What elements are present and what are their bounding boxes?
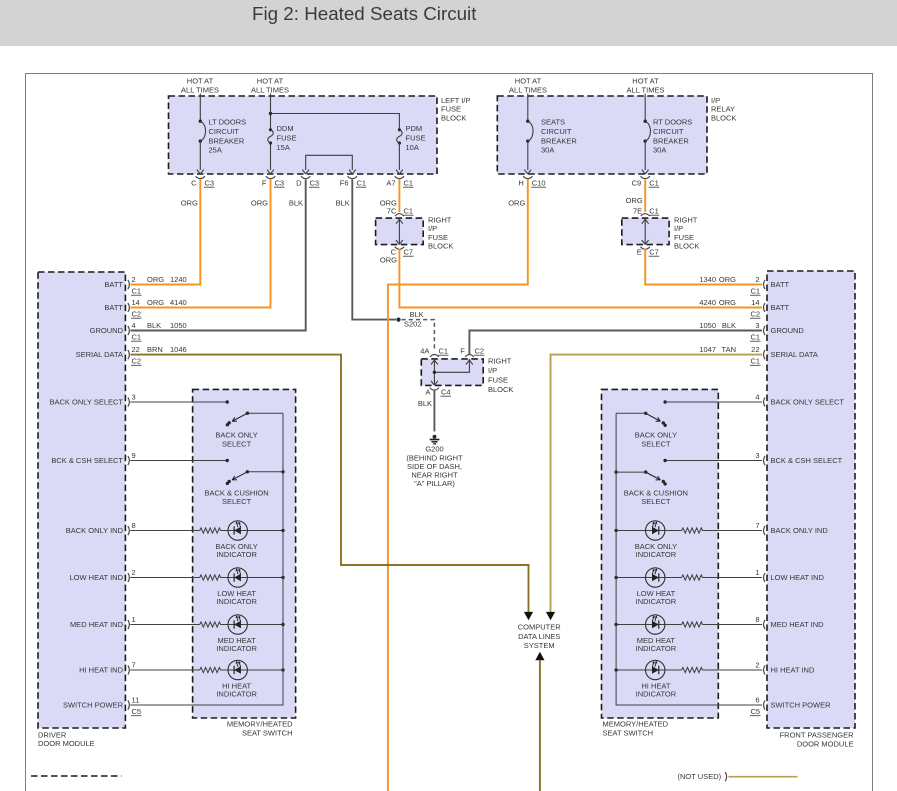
svg-text:ALL TIMES: ALL TIMES [181, 86, 219, 95]
svg-text:LEFT I/P: LEFT I/P [441, 96, 470, 105]
wire ORG C9 to right I/P fuse block [644, 180, 646, 213]
wire ORG circuit 4140 to driver BATT [131, 180, 271, 308]
svg-text:INDICATOR: INDICATOR [216, 690, 257, 699]
wire TAN circuit 1047 serial data [551, 355, 763, 613]
pin 7 BACK ONLY IND (passenger module) [755, 521, 828, 535]
svg-text:3: 3 [755, 321, 759, 330]
connector H C10 [523, 176, 532, 179]
svg-text:7: 7 [132, 660, 136, 669]
svg-text:FUSE: FUSE [277, 133, 297, 142]
svg-text:11: 11 [132, 695, 140, 704]
wire ORG seats feed down to seat elements [388, 180, 528, 791]
pin 8 BACK ONLY IND (driver module) [66, 521, 136, 535]
wire switch to rail [247, 471, 283, 473]
svg-text:BCK & CSH SELECT: BCK & CSH SELECT [771, 456, 843, 465]
indicator LOW HEAT (passenger) [614, 568, 762, 606]
svg-text:3: 3 [132, 392, 136, 401]
wire through fuse block [398, 218, 400, 245]
switch power rail (driver) [130, 413, 283, 705]
svg-text:F6: F6 [340, 179, 349, 188]
svg-text:C3: C3 [205, 179, 215, 188]
svg-text:BLK: BLK [289, 199, 303, 208]
indicator MED HEAT (driver) [130, 615, 284, 653]
svg-text:I/P: I/P [711, 96, 720, 105]
memory/heated seat switch box (passenger) [602, 389, 719, 718]
wire through fuse block [644, 218, 646, 245]
pin 1 LOW HEAT IND (passenger module) [755, 568, 824, 582]
svg-text:RIGHT: RIGHT [674, 216, 698, 225]
svg-text:SWITCH POWER: SWITCH POWER [771, 701, 832, 710]
junction on DDM feed [269, 112, 272, 115]
svg-text:2: 2 [132, 568, 136, 577]
svg-text:LOW HEAT IND: LOW HEAT IND [771, 573, 825, 582]
svg-text:BACK ONLY IND: BACK ONLY IND [66, 526, 124, 535]
svg-text:INDICATOR: INDICATOR [216, 644, 257, 653]
svg-text:BLOCK: BLOCK [711, 113, 736, 122]
svg-text:MEMORY/HEATED: MEMORY/HEATED [227, 719, 293, 728]
svg-text:SEAT SWITCH: SEAT SWITCH [603, 728, 654, 737]
svg-text:1: 1 [132, 615, 136, 624]
svg-text:C5: C5 [132, 707, 142, 716]
wire BRN circuit 1046 serial data [131, 355, 529, 613]
svg-text:30A: 30A [653, 146, 666, 155]
svg-text:1340: 1340 [699, 275, 716, 284]
svg-text:BACK ONLY: BACK ONLY [635, 431, 677, 440]
svg-text:8: 8 [132, 521, 136, 530]
indicator LOW HEAT (driver) [130, 568, 284, 606]
svg-text:D: D [296, 179, 302, 188]
svg-text:INDICATOR: INDICATOR [636, 550, 677, 559]
wire ORG to passenger BATT pin 14 [399, 249, 762, 308]
pin 7 HI HEAT IND (driver module) [79, 660, 136, 674]
svg-text:BLK: BLK [336, 199, 350, 208]
svg-text:1240: 1240 [170, 275, 187, 284]
svg-text:I/P: I/P [488, 366, 497, 375]
pin 2 HI HEAT IND (passenger module) [755, 660, 815, 674]
svg-text:FUSE: FUSE [674, 233, 694, 242]
svg-text:SELECT: SELECT [641, 497, 671, 506]
svg-text:SEATS: SEATS [541, 118, 565, 127]
svg-text:MED HEAT IND: MED HEAT IND [70, 620, 124, 629]
svg-text:RIGHT: RIGHT [488, 357, 512, 366]
connector (not used) pin [725, 772, 727, 781]
svg-text:1047: 1047 [699, 345, 716, 354]
svg-text:2: 2 [755, 275, 759, 284]
svg-text:2: 2 [755, 660, 759, 669]
svg-text:ORG: ORG [251, 199, 268, 208]
svg-text:1050: 1050 [170, 321, 187, 330]
svg-text:C7: C7 [649, 248, 659, 257]
front passenger door module box [767, 271, 855, 728]
svg-text:C1: C1 [649, 179, 659, 188]
svg-text:4: 4 [132, 321, 136, 330]
svg-text:2: 2 [132, 275, 136, 284]
svg-text:INDICATOR: INDICATOR [216, 597, 257, 606]
connector A7 C1 [395, 176, 404, 179]
pin 9 BCK & CSH SELECT (driver module) [51, 451, 135, 465]
svg-text:10A: 10A [406, 143, 419, 152]
svg-text:DOOR MODULE: DOOR MODULE [38, 739, 95, 748]
wire bracket D to F6 [306, 155, 353, 170]
left I/P fuse block box [169, 96, 438, 174]
ground G200 [433, 435, 437, 439]
svg-text:30A: 30A [541, 146, 554, 155]
svg-text:G200: G200 [425, 445, 443, 454]
svg-text:BREAKER: BREAKER [541, 136, 577, 145]
svg-text:F: F [460, 347, 465, 356]
wire BLK to G200 [433, 390, 435, 432]
connector C9 C1 [641, 176, 650, 179]
connector F C3 [266, 176, 275, 179]
pin 2 LOW HEAT IND (driver module) [70, 568, 136, 582]
connector D C3 [301, 176, 310, 179]
svg-text:9: 9 [132, 451, 136, 460]
svg-text:C1: C1 [132, 287, 142, 296]
wire ORG A7 to right I/P fuse block [398, 180, 400, 213]
svg-text:CIRCUIT: CIRCUIT [541, 127, 572, 136]
svg-text:C1: C1 [132, 333, 142, 342]
svg-text:C1: C1 [404, 179, 414, 188]
svg-text:SEAT SWITCH: SEAT SWITCH [242, 728, 293, 737]
switch BACK ONLY SELECT (passenger) [644, 412, 667, 427]
svg-text:7: 7 [755, 521, 759, 530]
wire BLK F6 to splice S202 [352, 180, 396, 320]
right I/P fuse block box (left) [376, 218, 424, 245]
svg-text:4140: 4140 [170, 298, 187, 307]
wire pin 9 to back & cushion select switch [130, 460, 227, 462]
svg-text:BLK: BLK [722, 321, 736, 330]
svg-text:"A" PILLAR): "A" PILLAR) [414, 479, 455, 488]
svg-text:MEMORY/HEATED: MEMORY/HEATED [603, 719, 669, 728]
right I/P fuse block box (right) [622, 218, 669, 245]
svg-text:ORG: ORG [719, 298, 736, 307]
svg-text:C4: C4 [441, 388, 451, 397]
svg-text:C3: C3 [310, 179, 320, 188]
svg-text:C2: C2 [132, 357, 142, 366]
svg-text:ALL TIMES: ALL TIMES [509, 86, 547, 95]
svg-text:BACK & CUSHION: BACK & CUSHION [624, 488, 688, 497]
fuse DDM 15A [270, 94, 272, 130]
pin 2 BATT (passenger module) [699, 275, 789, 296]
svg-text:HI HEAT IND: HI HEAT IND [771, 666, 815, 675]
circuit breaker SEATS 30A [527, 94, 529, 122]
memory/heated seat switch box (driver) [193, 389, 296, 718]
indicator MED HEAT (passenger) [614, 615, 762, 653]
svg-text:SYSTEM: SYSTEM [524, 641, 555, 650]
pin 4 BACK ONLY SELECT (passenger module) [755, 392, 844, 406]
pin 22 SERIAL DATA (driver module) [76, 345, 187, 366]
svg-text:C1: C1 [751, 357, 761, 366]
junction rail [281, 470, 284, 473]
connector E C7 [641, 247, 650, 250]
svg-text:FUSE: FUSE [441, 105, 461, 114]
svg-text:RELAY: RELAY [711, 105, 735, 114]
svg-text:BACK ONLY IND: BACK ONLY IND [771, 526, 829, 535]
svg-text:BLOCK: BLOCK [488, 385, 513, 394]
svg-text:RIGHT: RIGHT [428, 216, 452, 225]
svg-text:C1: C1 [751, 287, 761, 296]
svg-text:BATT: BATT [104, 303, 123, 312]
svg-text:DDM: DDM [277, 124, 294, 133]
wire ORG circuit 1240 to driver BATT [131, 180, 201, 285]
svg-text:PDM: PDM [406, 124, 423, 133]
svg-text:25A: 25A [209, 146, 222, 155]
svg-text:GROUND: GROUND [771, 326, 805, 335]
junction rail [614, 470, 617, 473]
switch BACK & CUSHION SELECT (passenger) [644, 470, 667, 485]
circuit breaker RT DOORS 30A [644, 94, 646, 122]
svg-text:SELECT: SELECT [641, 439, 671, 448]
indicator HI HEAT (passenger) [614, 660, 762, 698]
svg-text:SWITCH POWER: SWITCH POWER [63, 701, 124, 710]
pin 11 SWITCH POWER (driver module) [63, 695, 142, 716]
switch BACK & CUSHION SELECT (driver) [226, 470, 249, 485]
svg-text:TAN: TAN [722, 345, 736, 354]
svg-text:ALL TIMES: ALL TIMES [627, 86, 665, 95]
svg-text:H: H [518, 179, 523, 188]
svg-text:DOOR MODULE: DOOR MODULE [797, 740, 854, 749]
wire pin 3 to back only select switch [130, 401, 227, 403]
connector C C3 [196, 176, 205, 179]
wire switch to rail [616, 471, 646, 473]
right I/P fuse block box (middle) [421, 359, 483, 386]
svg-text:SELECT: SELECT [222, 497, 252, 506]
indicator BACK ONLY (passenger) [614, 521, 762, 559]
svg-text:22: 22 [132, 345, 140, 354]
svg-text:ORG: ORG [147, 298, 164, 307]
svg-text:BATT: BATT [771, 280, 790, 289]
svg-text:C3: C3 [275, 179, 285, 188]
circuit breaker LT DOORS 25A [199, 94, 201, 122]
svg-text:14: 14 [751, 298, 759, 307]
svg-text:BLK: BLK [147, 321, 161, 330]
svg-text:FUSE: FUSE [488, 376, 508, 385]
svg-text:INDICATOR: INDICATOR [636, 597, 677, 606]
svg-text:HOT AT: HOT AT [515, 77, 542, 86]
svg-text:LT DOORS: LT DOORS [209, 118, 247, 127]
svg-text:C2: C2 [751, 310, 761, 319]
svg-text:BLOCK: BLOCK [441, 113, 466, 122]
svg-text:BACK ONLY SELECT: BACK ONLY SELECT [771, 398, 845, 407]
wire BLK dashed S202 to 4A [402, 320, 435, 352]
svg-text:COMPUTER: COMPUTER [518, 623, 562, 632]
pin 22 SERIAL DATA (passenger module) [699, 345, 818, 366]
indicator BACK ONLY (driver) [130, 521, 284, 559]
svg-text:F: F [262, 179, 267, 188]
svg-text:1046: 1046 [170, 345, 187, 354]
svg-text:SELECT: SELECT [222, 439, 252, 448]
svg-text:HOT AT: HOT AT [187, 77, 214, 86]
driver door module box [38, 272, 125, 728]
svg-text:C10: C10 [532, 179, 546, 188]
svg-text:ORG: ORG [380, 256, 397, 265]
svg-text:ORG: ORG [626, 196, 643, 205]
svg-text:7C: 7C [387, 207, 397, 216]
svg-text:I/P: I/P [428, 224, 437, 233]
svg-text:GROUND: GROUND [90, 326, 124, 335]
svg-text:C7: C7 [404, 248, 414, 257]
wire pin 4 to back only select switch [665, 401, 762, 403]
svg-text:BREAKER: BREAKER [209, 136, 245, 145]
svg-text:ORG: ORG [508, 199, 525, 208]
svg-text:A7: A7 [386, 179, 395, 188]
pin 4 GROUND (driver module) [90, 321, 187, 342]
svg-text:FUSE: FUSE [428, 233, 448, 242]
fuse PDM 10A [398, 128, 401, 131]
svg-text:BACK & CUSHION: BACK & CUSHION [205, 488, 269, 497]
svg-text:INDICATOR: INDICATOR [636, 644, 677, 653]
svg-text:ORG: ORG [147, 275, 164, 284]
svg-text:FUSE: FUSE [406, 133, 426, 142]
svg-text:S202: S202 [404, 320, 422, 329]
svg-text:C1: C1 [404, 207, 414, 216]
next module box (cut off) [31, 775, 122, 777]
wire switch to rail [616, 412, 646, 414]
svg-text:C2: C2 [475, 347, 485, 356]
svg-text:C1: C1 [649, 207, 659, 216]
pin 6 SWITCH POWER (passenger module) [750, 695, 831, 716]
svg-text:ALL TIMES: ALL TIMES [251, 86, 289, 95]
wire BLK circuit 1050 to driver GROUND [131, 180, 306, 331]
wire ORG circuit 1340 to passenger BATT pin 2 [645, 249, 762, 285]
svg-text:4240: 4240 [699, 298, 716, 307]
wire TAN (not used) [728, 776, 797, 778]
svg-text:C5: C5 [751, 707, 761, 716]
svg-text:BCK & CSH SELECT: BCK & CSH SELECT [51, 456, 123, 465]
splice S202 [396, 318, 400, 322]
wires inside middle fuse block [433, 359, 435, 386]
svg-text:RT DOORS: RT DOORS [653, 118, 692, 127]
svg-text:I/P: I/P [674, 224, 683, 233]
switch power rail (passenger) [616, 413, 762, 705]
pin 3 BACK ONLY SELECT (driver module) [50, 392, 136, 406]
indicator HI HEAT (driver) [130, 660, 284, 698]
svg-text:C9: C9 [632, 179, 642, 188]
svg-text:CIRCUIT: CIRCUIT [653, 127, 684, 136]
svg-text:A: A [425, 388, 430, 397]
svg-text:SERIAL DATA: SERIAL DATA [771, 350, 818, 359]
svg-text:3: 3 [755, 451, 759, 460]
svg-text:4: 4 [755, 392, 759, 401]
svg-text:INDICATOR: INDICATOR [216, 550, 257, 559]
svg-text:INDICATOR: INDICATOR [636, 690, 677, 699]
svg-text:15A: 15A [277, 143, 290, 152]
pin 3 GROUND (passenger module) [699, 321, 804, 342]
svg-text:BLK: BLK [418, 399, 432, 408]
svg-text:C1: C1 [751, 333, 761, 342]
svg-text:4A: 4A [420, 347, 429, 356]
svg-text:Fig 2: Heated Seats Circuit: Fig 2: Heated Seats Circuit [252, 3, 477, 24]
wire switch to rail [247, 412, 283, 414]
svg-text:C1: C1 [357, 179, 367, 188]
svg-text:BATT: BATT [104, 280, 123, 289]
svg-text:BRN: BRN [147, 345, 163, 354]
svg-text:HI HEAT IND: HI HEAT IND [79, 666, 123, 675]
svg-text:LOW HEAT IND: LOW HEAT IND [70, 573, 124, 582]
svg-text:1: 1 [755, 568, 759, 577]
pin 14 BATT (passenger module) [699, 298, 789, 319]
svg-text:BATT: BATT [771, 303, 790, 312]
svg-text:E: E [637, 248, 642, 257]
svg-text:MED HEAT IND: MED HEAT IND [771, 620, 825, 629]
svg-text:C: C [191, 179, 197, 188]
connector F6 C1 [348, 176, 357, 179]
svg-text:6: 6 [755, 695, 759, 704]
connector A C4 [430, 388, 439, 391]
svg-text:CIRCUIT: CIRCUIT [209, 127, 240, 136]
svg-text:SERIAL DATA: SERIAL DATA [76, 350, 123, 359]
svg-text:C1: C1 [439, 347, 449, 356]
svg-text:7E: 7E [633, 207, 642, 216]
svg-text:1050: 1050 [699, 321, 716, 330]
svg-text:BLK: BLK [410, 310, 424, 319]
svg-text:C2: C2 [132, 310, 142, 319]
wire BLK passenger ground to F C2 [469, 331, 762, 355]
svg-text:ORG: ORG [719, 275, 736, 284]
svg-text:FRONT PASSENGER: FRONT PASSENGER [780, 731, 854, 740]
pin 3 BCK & CSH SELECT (passenger module) [755, 451, 842, 465]
svg-text:(NOT USED): (NOT USED) [678, 772, 722, 781]
svg-text:BACK ONLY SELECT: BACK ONLY SELECT [50, 398, 124, 407]
svg-text:BLOCK: BLOCK [428, 242, 453, 251]
svg-text:8: 8 [755, 615, 759, 624]
svg-text:HOT AT: HOT AT [257, 77, 284, 86]
wire BRN from computer data lines down [535, 652, 544, 660]
pin 14 BATT (driver module) [104, 298, 186, 319]
svg-text:HOT AT: HOT AT [632, 77, 659, 86]
pin 8 MED HEAT IND (passenger module) [755, 615, 824, 629]
svg-text:BACK ONLY: BACK ONLY [215, 431, 257, 440]
svg-text:14: 14 [132, 298, 140, 307]
svg-text:DATA LINES: DATA LINES [518, 632, 560, 641]
svg-text:BREAKER: BREAKER [653, 136, 689, 145]
pin 2 BATT (driver module) [104, 275, 186, 296]
connector C C7 [395, 247, 404, 250]
I/P relay block box [497, 96, 707, 174]
title banner [0, 0, 897, 46]
svg-text:22: 22 [751, 345, 759, 354]
wire DDM feed to PDM fuse [271, 114, 400, 130]
wire pin 3 to back & cushion select switch [665, 460, 762, 462]
svg-text:ORG: ORG [181, 199, 198, 208]
switch BACK ONLY SELECT (driver) [226, 412, 249, 427]
svg-text:BLOCK: BLOCK [674, 242, 699, 251]
pin 1 MED HEAT IND (driver module) [70, 615, 136, 629]
